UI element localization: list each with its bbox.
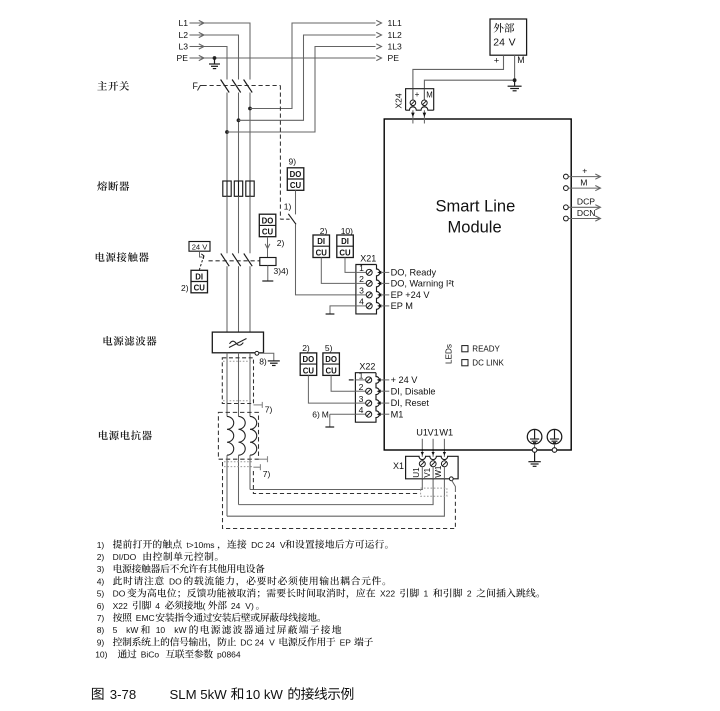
pin X21 3 arrow: [377, 293, 381, 296]
wire X1 U1 through: [421, 467, 423, 479]
svg-text:BiCo: BiCo: [141, 650, 160, 660]
svg-text:2): 2): [302, 343, 310, 353]
wire L3 feed: [204, 47, 227, 80]
wire phase S contactor to filter: [238, 266, 240, 332]
cable shield dashed box 7) upper: [222, 358, 253, 404]
svg-text:DO: DO: [169, 576, 182, 586]
wire L2 feed: [204, 35, 239, 80]
wire module W1 to X1: [443, 439, 445, 457]
svg-text:7): 7): [97, 613, 105, 623]
wire phase S reactor down: [238, 455, 240, 504]
svg-text:M: M: [517, 55, 524, 65]
svg-text:CU: CU: [262, 228, 274, 237]
svg-text:DC: DC: [240, 637, 252, 647]
signal box DI/CU 2) X21: [313, 235, 330, 258]
fuse F1: [226, 181, 228, 196]
terminal X22 2 screw: [366, 388, 372, 394]
pin X22 2 arrow: [377, 390, 381, 393]
wire 6)M to X22 pin4: [330, 413, 356, 415]
svg-text:V1: V1: [423, 467, 432, 477]
svg-text:3: 3: [359, 286, 364, 296]
svg-text:DI, Reset: DI, Reset: [391, 398, 430, 408]
LED READY: [462, 346, 468, 352]
wire module V1 to X1: [432, 439, 434, 457]
pin X24 + into module: [412, 110, 414, 123]
junction 1L1 tap: [248, 107, 252, 111]
filter symbol: [230, 341, 244, 345]
svg-text:24: 24: [493, 37, 505, 48]
node 1L3 output: [376, 44, 381, 49]
svg-text:EP +24 V: EP +24 V: [391, 290, 431, 300]
svg-text:V: V: [280, 540, 286, 550]
pin X21 1 stub: [356, 271, 366, 273]
svg-text:DO: DO: [290, 170, 302, 179]
pin X24 M lead: [423, 89, 425, 100]
svg-text:4: 4: [359, 297, 364, 307]
switch pole blade 3: [244, 80, 253, 93]
pin X24 + lead: [412, 89, 414, 100]
svg-text:V: V: [509, 37, 516, 48]
fuse F2: [238, 181, 240, 196]
line reactor dashed box: [218, 412, 258, 459]
contactor aux contact blade: [200, 251, 203, 257]
terminal X1 shield stud: [449, 477, 453, 481]
svg-text:kW: kW: [174, 625, 186, 635]
svg-text:CU: CU: [339, 248, 351, 257]
terminal DC output M: [564, 186, 569, 191]
terminal X21 2 screw: [366, 280, 372, 286]
LED DC LINK: [462, 360, 468, 366]
svg-text:CU: CU: [194, 284, 206, 293]
svg-text:DO: DO: [325, 355, 337, 364]
pin X21 3 stub: [356, 294, 366, 296]
wire 2) box to X22 pin3: [308, 375, 355, 403]
svg-text:DI: DI: [341, 237, 349, 246]
svg-text:4: 4: [155, 601, 160, 611]
wire 2) box to X21 pin2: [321, 258, 356, 284]
svg-text:8): 8): [259, 357, 267, 367]
shield clamp dotted lower: [224, 461, 253, 463]
switch 1) blade: [288, 214, 296, 225]
svg-text:Smart Line: Smart Line: [436, 197, 516, 215]
pin X21 2 stub: [356, 282, 366, 284]
wire PE bus: [204, 57, 376, 59]
svg-text:CU: CU: [290, 181, 302, 190]
svg-text:L1: L1: [178, 18, 188, 28]
svg-text:1L3: 1L3: [388, 42, 403, 52]
ground 6)M bar: [325, 426, 334, 428]
svg-text:kW: kW: [126, 625, 138, 635]
signal box DO/CU 5) X22: [323, 353, 340, 376]
wire W1 run: [227, 479, 444, 516]
svg-text:3: 3: [359, 394, 364, 404]
svg-text:M: M: [580, 178, 587, 188]
svg-text:10: 10: [156, 625, 166, 635]
pin X22 4 arrow: [377, 413, 381, 416]
wire L1 feed: [204, 23, 250, 80]
svg-text:24: 24: [255, 637, 265, 647]
svg-text:3)4): 3)4): [274, 266, 289, 276]
svg-text:1: 1: [359, 263, 364, 273]
svg-text:6): 6): [97, 601, 105, 611]
svg-text:PE: PE: [177, 53, 189, 63]
ground filter shield 8): [268, 360, 280, 362]
terminal X24 M screw: [422, 100, 428, 106]
signal box DI/CU 10) X21: [337, 235, 354, 258]
svg-text:M: M: [322, 409, 329, 419]
pin X21 2 arrow: [377, 282, 381, 285]
wire 24V plus: [413, 55, 504, 99]
ground EP M bar: [326, 313, 335, 315]
node PE output: [376, 55, 381, 60]
svg-text:DO, Warning I²t: DO, Warning I²t: [391, 279, 455, 289]
svg-text:V1: V1: [428, 428, 439, 438]
wire EP M hook: [330, 306, 356, 314]
svg-text:X24: X24: [394, 93, 404, 109]
ground PE input: [214, 58, 216, 64]
wire phase T filter to reactor: [249, 353, 251, 417]
svg-text:9): 9): [97, 637, 105, 647]
pin X22 3 stub: [355, 402, 365, 404]
signal box DO/CU 2) X22: [300, 353, 317, 376]
marker 7) lower: [253, 466, 260, 468]
terminal X1 W1 screw: [441, 461, 447, 467]
svg-text:EP M: EP M: [391, 301, 413, 311]
wire phase S switch to fuse: [238, 93, 240, 182]
wire phase T switch to fuse: [249, 93, 251, 182]
svg-text:10 kW: 10 kW: [246, 687, 284, 702]
svg-text:EP: EP: [340, 637, 352, 647]
svg-text:DO, Ready: DO, Ready: [391, 268, 437, 278]
mechanical link dashed contactor: [209, 260, 261, 262]
svg-text:M: M: [426, 91, 433, 100]
svg-text:SLM 5kW: SLM 5kW: [170, 687, 228, 702]
svg-text:5: 5: [113, 625, 118, 635]
wire 24V M: [514, 55, 516, 80]
cable shield outer dashed: [223, 462, 456, 529]
label 电源电抗器: [99, 430, 152, 440]
wire 1L3 riser: [227, 47, 376, 133]
signal box DI/CU 2) contactor: [191, 270, 208, 293]
cable shield inner dashed: [253, 471, 418, 494]
label 电源接触器: [96, 252, 149, 262]
svg-text:1L1: 1L1: [388, 18, 403, 28]
svg-text:1): 1): [97, 540, 105, 550]
terminal X22 4 screw: [366, 411, 372, 417]
svg-text:DCN: DCN: [577, 208, 596, 218]
contactor coil K1 3)4): [260, 258, 276, 266]
wire U1 run: [250, 479, 422, 490]
wire phase R switch to fuse: [226, 93, 228, 182]
svg-text:DI: DI: [317, 237, 325, 246]
inductor coil phase 3: [250, 416, 257, 455]
connector X24 body: [406, 89, 434, 111]
wire phase S filter to reactor: [238, 353, 240, 417]
switch pole blade 2: [232, 80, 241, 93]
svg-text:5): 5): [97, 589, 105, 599]
svg-text:U1: U1: [416, 428, 428, 438]
wire shield stud hook: [452, 481, 456, 492]
shield termination dotted box X1: [421, 488, 447, 496]
svg-text:2: 2: [467, 589, 472, 599]
svg-text:+ 24 V: + 24 V: [391, 375, 419, 385]
svg-text:CU: CU: [325, 366, 337, 375]
ground contactor coil M bar: [262, 280, 273, 282]
terminal X24 + screw: [410, 100, 416, 106]
node 1L1 output: [376, 20, 381, 25]
wire 1L2 riser: [239, 35, 376, 120]
svg-text:DCP: DCP: [577, 197, 595, 207]
label 熔断器: [97, 181, 129, 191]
svg-text:M1: M1: [391, 409, 404, 419]
svg-text:1: 1: [424, 589, 429, 599]
svg-text:PE: PE: [388, 53, 400, 63]
caption 图 3-78: [92, 688, 103, 700]
svg-text:6): 6): [312, 409, 320, 419]
wire phase T reactor down: [249, 455, 251, 489]
svg-text:2: 2: [359, 382, 364, 392]
svg-text:L2: L2: [178, 30, 188, 40]
pin X22 1 arrow: [377, 378, 381, 381]
wire phase S fuse to contactor: [238, 196, 240, 253]
wire V1 run: [239, 479, 434, 505]
wire phase R contactor to filter: [226, 266, 228, 332]
line filter box: [212, 332, 263, 353]
terminal X21 4 screw: [366, 303, 372, 309]
wire phase R reactor down: [226, 455, 228, 516]
connector X1 body: [406, 456, 459, 479]
terminal DC output +: [564, 174, 569, 179]
svg-text:Module: Module: [448, 218, 502, 236]
terminal X1 U1 screw: [419, 461, 425, 467]
junction PE ground tap: [213, 56, 217, 60]
svg-text:DC LINK: DC LINK: [472, 359, 504, 368]
svg-text:p0864: p0864: [217, 650, 241, 660]
svg-text:DI/DO: DI/DO: [113, 552, 137, 562]
wire X1 V1 through: [432, 467, 434, 479]
switch F mechanical hook: [198, 86, 203, 91]
wire 10) box to X21 pin1: [345, 258, 356, 273]
wire X1 W1 through: [443, 467, 445, 479]
connector X22 body: [355, 373, 379, 423]
svg-text:DO: DO: [303, 355, 315, 364]
svg-text:X22: X22: [113, 601, 128, 611]
signal box DO/CU 2) coil drive: [259, 214, 276, 237]
label 电源滤波器: [104, 336, 157, 346]
wire phase R fuse to contactor: [226, 196, 228, 253]
svg-text:DI, Disable: DI, Disable: [391, 386, 436, 396]
svg-text:2): 2): [181, 283, 189, 293]
svg-text:10): 10): [95, 650, 107, 660]
svg-text:W1: W1: [439, 428, 453, 438]
svg-text:X21: X21: [360, 254, 376, 264]
label minus X22 pin1: [349, 379, 354, 381]
svg-text:READY: READY: [472, 345, 500, 354]
svg-text:1L2: 1L2: [388, 30, 403, 40]
wire 5) box to X22 pin2: [331, 375, 355, 391]
pin X21 4 stub: [356, 305, 366, 307]
svg-text:24: 24: [231, 601, 241, 611]
contactor pole blade 3: [244, 254, 252, 267]
wire DO box to coil: [267, 237, 269, 258]
terminal X21 1 screw: [366, 269, 372, 275]
terminal DC output DCP: [564, 205, 569, 210]
connector X21 body: [356, 265, 380, 314]
svg-text:L3: L3: [178, 42, 188, 52]
Smart Line Module outline: [384, 119, 571, 450]
wire coil to M: [267, 266, 269, 282]
svg-text:EMC: EMC: [136, 613, 155, 623]
svg-text:7): 7): [265, 404, 273, 414]
box 24V aux supply: [189, 242, 210, 252]
svg-text:DI: DI: [195, 273, 203, 282]
mechanical link dashed to switch 1): [279, 86, 281, 220]
svg-text:4): 4): [97, 576, 105, 586]
inductor coil phase 1: [227, 416, 234, 455]
terminal X21 3 screw: [366, 292, 372, 298]
svg-text:9): 9): [289, 157, 297, 167]
PE terminal screw at 534.6: [527, 429, 542, 444]
marker 7) upper: [254, 404, 263, 406]
pin X22 2 stub: [355, 390, 365, 392]
contactor pole blade 2: [232, 254, 240, 267]
wire shield terminal to earth: [259, 353, 274, 361]
marker reactor tick: [259, 458, 268, 460]
shield clamp dotted upper: [223, 360, 253, 362]
svg-text:LEDs: LEDs: [445, 344, 454, 364]
junction M ground: [513, 78, 517, 82]
signal box DO/CU 9): [287, 168, 304, 191]
pin X22 1 stub: [355, 379, 365, 381]
svg-text:24 V: 24 V: [192, 242, 209, 251]
box external 24 V: [490, 19, 527, 55]
pin X21 1 arrow: [377, 271, 381, 274]
svg-text:DO: DO: [262, 216, 274, 225]
terminal X22 3 screw: [366, 400, 372, 406]
ground external 24V M: [514, 80, 516, 86]
svg-text:1): 1): [284, 202, 292, 212]
svg-text:7): 7): [263, 469, 271, 479]
svg-text:DC: DC: [251, 540, 263, 550]
svg-text:W1: W1: [434, 465, 443, 478]
svg-text:8): 8): [97, 625, 105, 635]
pin X22 4 stub: [355, 413, 365, 415]
pin X22 3 arrow: [377, 401, 381, 404]
contactor pole blade 1: [221, 254, 229, 267]
svg-text:5): 5): [325, 343, 333, 353]
svg-text:CU: CU: [316, 248, 328, 257]
svg-text:V: V: [269, 637, 275, 647]
svg-text:4: 4: [359, 405, 364, 415]
fuse F3: [249, 181, 251, 196]
wire phase T contactor to filter: [249, 266, 251, 332]
PE terminal screw at 554.5: [547, 429, 562, 444]
terminal DC output DCN: [564, 216, 569, 221]
inductor coil phase 2: [239, 416, 246, 455]
wire module U1 to X1: [421, 439, 423, 457]
svg-text:U1: U1: [412, 467, 421, 478]
svg-text:X22: X22: [380, 589, 395, 599]
ground module PE: [534, 452, 536, 461]
svg-text:3): 3): [97, 564, 105, 574]
filter shield terminal: [255, 351, 259, 355]
svg-text:3-78: 3-78: [110, 687, 136, 702]
svg-text:DO: DO: [113, 589, 126, 599]
svg-text:+: +: [415, 90, 420, 99]
wire 1L1 riser: [250, 23, 376, 109]
svg-text:V): V): [245, 601, 254, 611]
pin X21 4 arrow: [377, 304, 381, 307]
svg-text:24: 24: [266, 540, 276, 550]
svg-text:1: 1: [359, 371, 364, 381]
wire phase R filter to reactor: [226, 353, 228, 417]
mechanical link dashed main switch: [203, 85, 281, 87]
terminal X1 V1 screw: [430, 461, 436, 467]
wire phase T fuse to contactor: [249, 196, 251, 253]
junction 1L3 tap: [225, 130, 229, 134]
label 主开关: [97, 81, 129, 91]
junction 1L2 tap: [237, 118, 241, 122]
svg-text:+: +: [582, 166, 587, 176]
svg-text:2): 2): [277, 238, 285, 248]
svg-text:2: 2: [359, 274, 364, 284]
svg-text:X1: X1: [393, 461, 404, 471]
wire 9) box to switch 1): [295, 190, 297, 214]
svg-text:(: (: [203, 601, 206, 611]
svg-text:2): 2): [97, 552, 105, 562]
switch pole blade 1: [221, 80, 230, 93]
svg-text:CU: CU: [303, 366, 315, 375]
terminal X22 1 screw: [366, 377, 372, 383]
wire switch 1) to X21 pin3: [296, 224, 356, 295]
svg-text:+: +: [494, 54, 500, 65]
svg-text:t>10ms: t>10ms: [186, 540, 214, 550]
pin X24 M into module: [423, 110, 425, 123]
node 1L2 output: [376, 32, 381, 37]
